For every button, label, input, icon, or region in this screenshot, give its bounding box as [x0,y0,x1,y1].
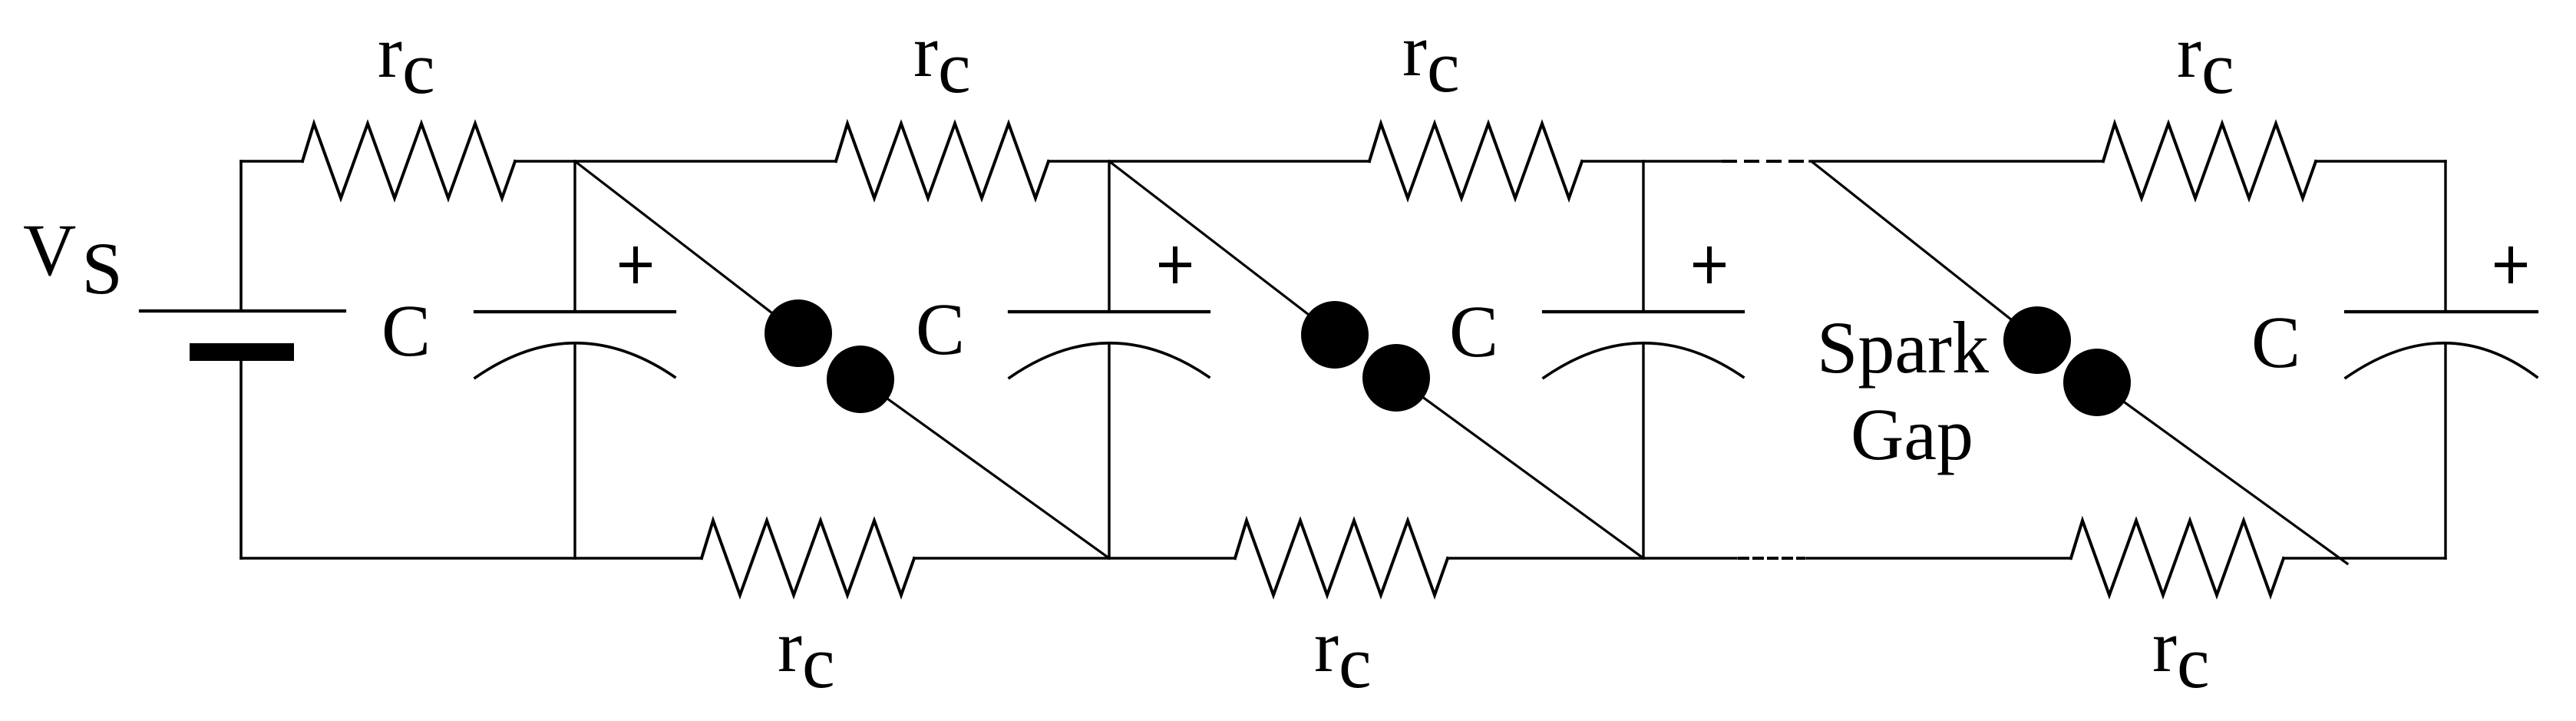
svg-text:VS: VS [23,209,123,309]
spark gap G3 electrode ball 1 [2003,306,2071,374]
spark gap G3 wire upper segment [1812,162,2037,340]
wire top bus: R3 past vertical 3 [1582,160,1722,162]
spark gap G2 electrode ball 2 [1362,344,1430,412]
capacitor C4 [2346,310,2537,313]
wire stage vertical 1 upper (x=749) [573,161,576,312]
resistor rc R4 (top, last stage) [2103,124,2316,198]
spark gap G2 wire lower segment [1396,378,1643,558]
wire bottom bus: R5 to R6 [914,557,1235,559]
polarity + mark, capacitor C3 [1693,263,1726,267]
svg-text:rc: rc [378,11,435,109]
capacitor C1 [475,310,675,313]
wire stage vertical 1 lower [573,343,576,558]
svg-text:C: C [916,288,965,370]
wire bottom bus: R7 to bottom-right corner [2284,557,2446,559]
svg-text:rc: rc [778,605,835,703]
svg-text:rc: rc [913,10,971,108]
spark gap G2 wire upper segment [1109,161,1335,335]
wire bottom bus: dashed continuation (omitted stages) [1739,557,1804,560]
wire stage vertical 3 upper (x=2141) [1642,161,1644,312]
wire bottom bus: left corner to R5 [241,557,702,559]
wire top bus: R4 to top-right corner [2316,160,2446,162]
svg-text:C: C [2251,301,2300,383]
wire top bus: dash end to R4 [1810,160,2103,162]
capacitor C2 [1009,310,1209,313]
battery VS negative plate (short thick) [190,343,294,361]
resistor rc R2 (top, stage 2) [836,124,1049,198]
spark gap G1 wire lower segment [860,379,1109,558]
spark gap G3 wire lower segment [2097,382,2347,564]
svg-text:rc: rc [2177,11,2234,109]
wire stage vertical 2 lower [1108,343,1110,558]
resistor rc R6 (bottom, stage 3) [1235,521,1448,595]
wire top bus: left corner to R1 [241,160,302,162]
svg-text:rc: rc [1402,9,1460,107]
resistor rc R5 (bottom, stage 2) [702,521,914,595]
polarity + mark, capacitor C4 [2495,263,2527,267]
resistor rc R1 (top, stage 1) [302,124,515,198]
wire top bus: R2 to R3 [1049,160,1369,162]
svg-text:Spark: Spark [1817,306,1989,389]
svg-text:rc: rc [2152,605,2210,703]
svg-text:Gap: Gap [1851,393,1973,475]
svg-text:rc: rc [1314,605,1372,703]
wire bottom bus: dash end to R7 [1807,557,2071,559]
svg-text:C: C [381,289,431,372]
battery VS positive plate (long thin) [140,309,345,313]
spark gap G1 electrode ball 1 [765,299,832,367]
spark gap G3 electrode ball 2 [2063,349,2131,416]
polarity + mark, capacitor C1 [619,263,652,267]
wire stage vertical 4 lower [2444,343,2446,558]
wire bottom bus: R6 past vertical 3 [1448,557,1736,559]
wire stage vertical 3 lower [1642,343,1644,558]
svg-text:C: C [1449,290,1498,372]
wire top bus: dashed continuation (omitted stages) [1723,160,1805,163]
resistor rc R3 (top, stage 3) [1369,124,1582,198]
wire stage vertical 2 upper (x=1445) [1108,161,1110,312]
wire top bus: R1 to R2 [515,160,836,162]
spark gap G1 electrode ball 2 [827,346,894,413]
spark gap G2 electrode ball 1 [1301,301,1369,369]
resistor rc R7 (bottom, last stage) [2071,521,2284,595]
polarity + mark, capacitor C2 [1159,263,1191,267]
spark gap G1 wire upper segment [575,161,798,333]
wire left vertical lower [239,361,243,558]
node: top-left corner / wire left vertical upper [239,161,243,310]
capacitor C3 [1544,310,1743,313]
wire stage vertical 4 upper (x=3186) [2444,161,2446,312]
